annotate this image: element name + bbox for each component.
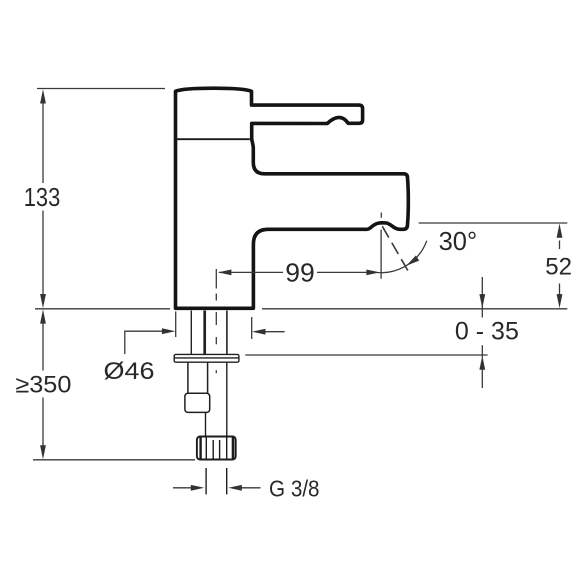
G3/8 left arrow (points right): [191, 485, 205, 491]
svg-text:0 - 35: 0 - 35: [455, 318, 519, 346]
svg-text:30°: 30°: [439, 228, 478, 256]
top extension line: [37, 88, 165, 90]
deck flange (washer): [174, 354, 239, 362]
diameter 46 ticks: [175, 312, 177, 338]
cartridge joint line (cap base): [176, 138, 250, 140]
diameter46 right arrow (points left): [252, 329, 266, 335]
svg-text:Ø46: Ø46: [104, 358, 155, 385]
30 degree arc: [370, 241, 427, 273]
arrowheads: [40, 89, 562, 490]
diameter 46 right arrow line: [264, 331, 285, 333]
52 dimension line: [559, 241, 561, 250]
arc arrowhead: [406, 256, 419, 266]
0-35 lower line: [245, 354, 487, 356]
supply pipes below body: [191, 311, 227, 355]
spout height line (52 top): [419, 222, 568, 224]
diameter 46 leader: [125, 331, 165, 354]
threaded stud left line: [190, 311, 192, 355]
svg-text:G 3/8: G 3/8: [269, 475, 320, 501]
centre line (axis): [215, 269, 217, 373]
0-35 lower arrow (up): [479, 356, 485, 370]
hose tail: [206, 468, 227, 494]
>=350 top arrow: [40, 309, 46, 323]
>=350 dimension line: [42, 320, 44, 371]
>=350 bottom line: [33, 459, 195, 461]
hose right: [226, 311, 228, 355]
G3/8 arrow lines: [173, 487, 193, 489]
svg-text:≥350: ≥350: [15, 372, 71, 399]
hose coupling nut (knurled): [197, 437, 236, 460]
>=350 bottom arrow: [40, 445, 46, 459]
G3/8 right arrow (points left): [228, 485, 242, 491]
deck line right: [262, 308, 567, 310]
spout vertical reference: [380, 230, 382, 279]
52 top arrow: [557, 224, 563, 238]
svg-text:99: 99: [285, 260, 315, 288]
flexible hose: [206, 362, 227, 436]
99 left arrow: [218, 270, 232, 276]
deck line left: [35, 308, 170, 310]
133 dimension line: [42, 100, 44, 184]
133 top arrow: [40, 89, 46, 103]
spout tip centre dash: [380, 213, 382, 218]
diameter46 left arrow (points right): [162, 328, 176, 334]
mounting nut: [185, 393, 210, 412]
0-35 upper arrow (down): [479, 294, 485, 308]
hose left (thick): [203, 311, 206, 355]
faucet body outline: [176, 88, 409, 308]
30 degree slant dashed line: [382, 226, 408, 271]
mounting cylinder under flange: [185, 362, 210, 412]
133 bottom arrow: [40, 294, 46, 308]
99 dimension line: [219, 271, 283, 273]
svg-text:133: 133: [24, 184, 61, 212]
99 right arrow: [366, 270, 380, 276]
52 bottom arrow: [557, 294, 563, 308]
svg-text:52: 52: [545, 254, 572, 281]
0-35 dimension: [481, 277, 483, 297]
